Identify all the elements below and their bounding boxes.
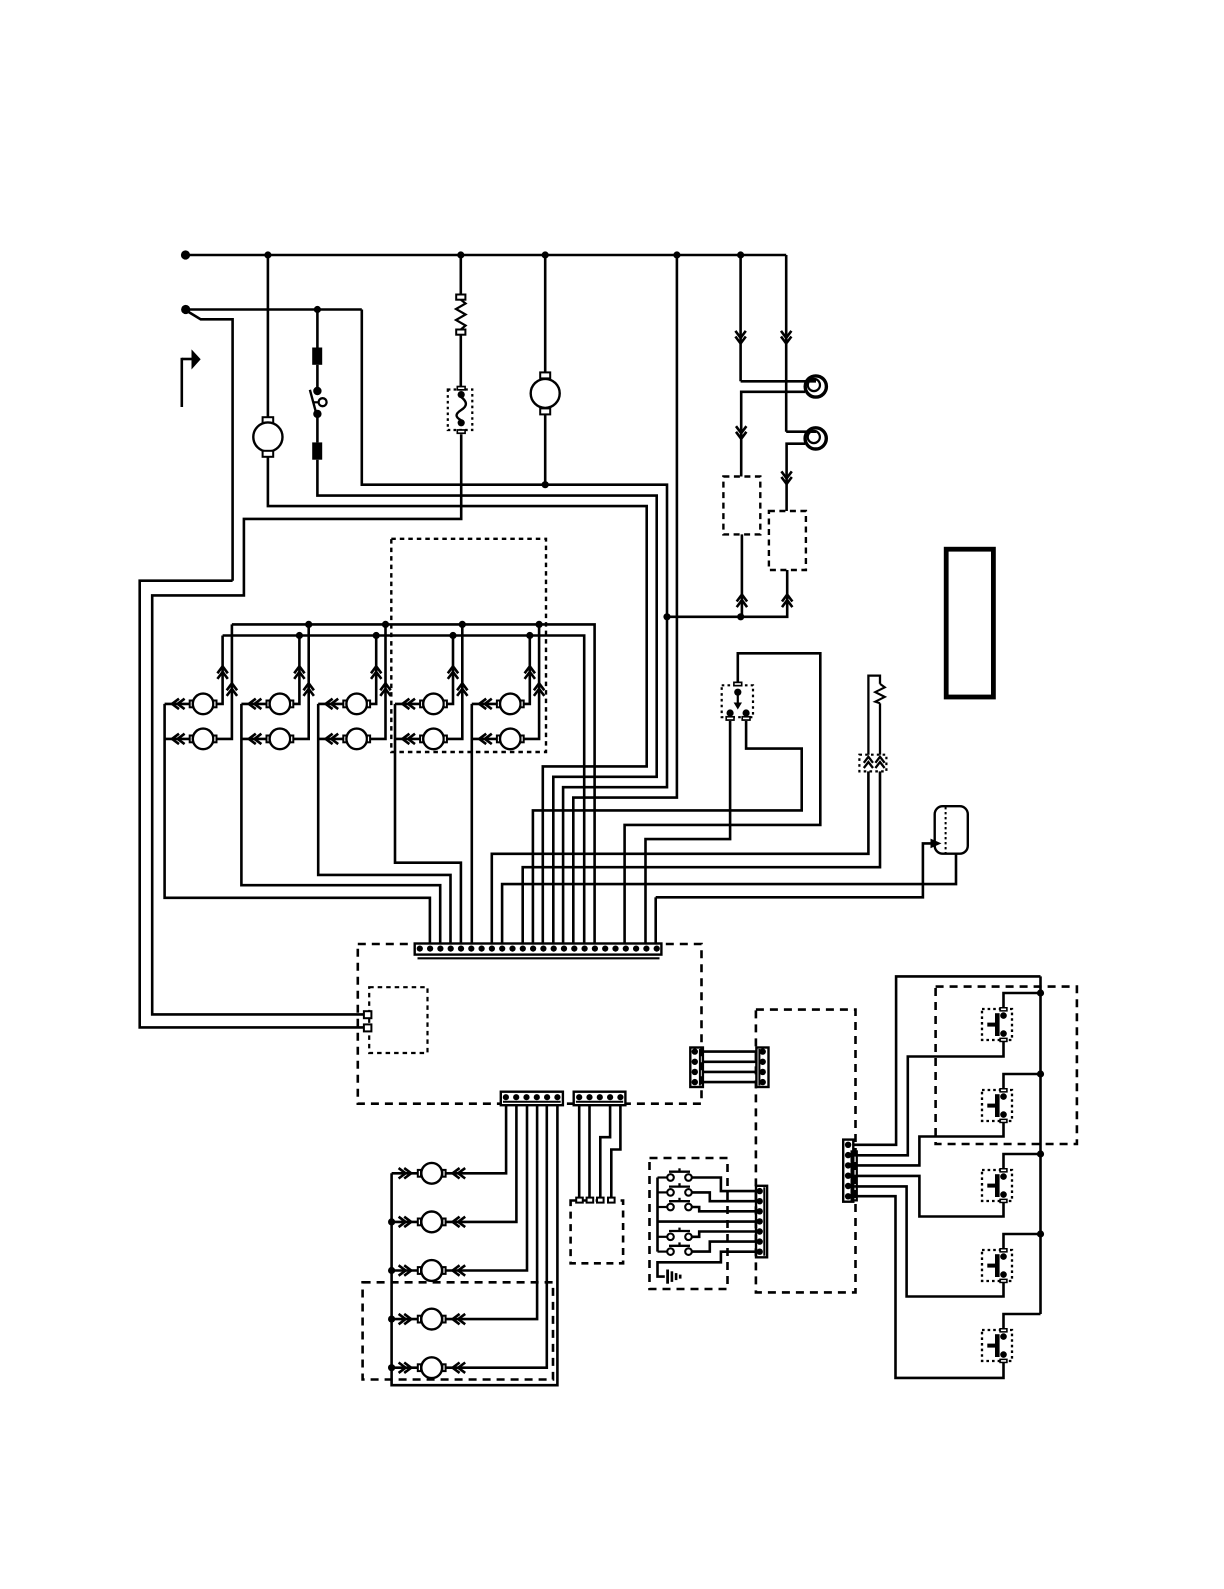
pin P3-2 <box>586 1094 592 1100</box>
wire resistor-fuse <box>459 335 462 387</box>
node valve bus junction 5 <box>388 1364 395 1371</box>
wire bus1 to burner 1B <box>217 624 232 739</box>
surface burner valve 5B <box>497 736 500 743</box>
pin J2-2 <box>760 1059 766 1065</box>
node valve bus junction 3 <box>388 1267 395 1274</box>
wire SI4 return <box>853 1186 1003 1296</box>
node L1 left end <box>181 250 190 259</box>
node igniter bus junction 1 <box>1037 989 1044 996</box>
connector chevrons burner 3A left <box>326 699 339 709</box>
wire J1-J2 pin2 <box>703 1060 757 1063</box>
wire valve 5 to strip <box>446 1105 547 1368</box>
wire L2 branch diagonal <box>187 311 233 581</box>
connector chevrons broil return <box>782 595 792 608</box>
wire burner 3B left lead <box>318 738 343 741</box>
connector chevrons burner 5A <box>525 666 535 679</box>
wire igniter bus to SI1 <box>1004 993 1041 1007</box>
connector chevrons valve 1 in <box>399 1168 412 1178</box>
connector chevrons valve 5 in <box>399 1363 412 1373</box>
wire bus2 to burner 3A <box>370 636 376 704</box>
pin J4-5 <box>845 1183 851 1189</box>
wire broil box to bus <box>667 570 787 617</box>
wire igniter bus to SI3 <box>1004 1154 1041 1168</box>
wire bus1 to burner 2B <box>293 624 308 739</box>
wire valve 5 left <box>392 1366 419 1369</box>
node valve bus junction 4 <box>388 1316 395 1323</box>
spark igniter SI3 <box>982 1170 1012 1201</box>
wire SI1 return <box>853 1042 1003 1155</box>
pin P3-1 <box>576 1094 582 1100</box>
pin J2-1 <box>760 1048 766 1054</box>
wire L2 left drop <box>140 581 365 1028</box>
pin J3-4 <box>757 1218 763 1224</box>
connector chevrons valve 1 out <box>453 1168 466 1178</box>
chassis ground <box>666 1270 669 1284</box>
pin P1-19 <box>602 946 608 952</box>
wire bus1 to burner 3B <box>370 624 385 739</box>
wire spark module out L <box>646 721 731 944</box>
node junction L1-igniter1 <box>737 251 744 258</box>
door latch assembly <box>935 806 968 854</box>
wire burner 3A left lead <box>318 703 343 706</box>
resistor R1 <box>456 295 465 300</box>
wire burner col3 return <box>318 704 450 944</box>
pin P2-5 <box>544 1094 550 1100</box>
wire resistor feed <box>459 255 462 295</box>
pin P1-21 <box>623 946 629 952</box>
wire switch row 1 out <box>692 1178 756 1192</box>
pin J1-1 <box>692 1048 698 1054</box>
pin P1-18 <box>592 946 598 952</box>
pin P1-23 <box>643 946 649 952</box>
wire spark module power <box>625 653 821 943</box>
pin P3-5 <box>617 1094 623 1100</box>
pin P1-9 <box>499 946 505 952</box>
pin J3-7 <box>757 1249 763 1255</box>
surface burner valve 3A <box>343 701 346 708</box>
wire bus2 to burner 5A <box>524 636 530 704</box>
pin P1-17 <box>582 946 588 952</box>
pin P1-22 <box>633 946 639 952</box>
connector chevrons sensor R <box>875 757 884 768</box>
fuse F1 <box>312 348 322 365</box>
surface burner valve 1A <box>190 701 193 708</box>
connector chevrons sensor L <box>864 757 873 768</box>
pin J3-3 <box>757 1208 763 1214</box>
harness connector J2 <box>756 1048 768 1088</box>
thermal fuse TF1 <box>448 390 473 431</box>
node bus2 junction col2 <box>296 632 303 639</box>
surface burner valve 5A <box>497 701 500 708</box>
node motor-L2wire junction <box>542 481 549 488</box>
spark igniter SI2 <box>982 1090 1012 1121</box>
wire igniter1 outer lead <box>741 392 805 477</box>
pin J1-4 <box>692 1079 698 1085</box>
pin P1-15 <box>561 946 567 952</box>
pin P2-6 <box>554 1094 560 1100</box>
connector chevrons valve 4 out <box>453 1314 466 1324</box>
wire switch row 6 out <box>692 1242 756 1252</box>
terminal strip P1 <box>415 944 662 955</box>
connector chevrons valve 3 out <box>453 1265 466 1275</box>
surface burner valve 1B <box>190 736 193 743</box>
terminal REG-3 <box>597 1198 604 1203</box>
pin P3-3 <box>597 1094 603 1100</box>
connector chevrons igniter1 feed <box>735 331 745 344</box>
connector chevrons burner 3B <box>380 683 390 696</box>
wire fuse-switch <box>316 365 319 391</box>
sensor connector box <box>859 755 886 772</box>
switch harness connector J3 <box>756 1186 767 1258</box>
wire clock feed <box>267 255 270 419</box>
wire J1-J2 pin1 <box>703 1050 757 1053</box>
spark igniter SI5 <box>982 1330 1012 1361</box>
clock motor M1 <box>263 417 274 423</box>
connector chevrons burner 1B <box>227 683 237 696</box>
terminal P7-2 <box>364 1024 372 1031</box>
wire P3-5 to regulator <box>611 1105 620 1197</box>
terminal REG-1 <box>576 1198 583 1203</box>
surface burner valve 4B <box>420 736 423 743</box>
wire burner 4B left lead <box>395 738 420 741</box>
pin P1-11 <box>520 946 526 952</box>
wire P3-1 to regulator <box>578 1105 581 1197</box>
pin J4-6 <box>845 1193 851 1199</box>
surface burner valve 3B <box>343 736 346 743</box>
wire bus1 to burner 4B <box>447 624 462 739</box>
node junction L1-neutral drop <box>673 251 680 258</box>
pin J4-2 <box>845 1152 851 1158</box>
wire bus2 to burner 4A <box>447 636 453 704</box>
wire SI3 return <box>853 1176 1003 1217</box>
griddle dashed box <box>391 539 546 752</box>
igniter connector J4 <box>843 1140 853 1202</box>
pin J4-4 <box>845 1173 851 1179</box>
node igniter bus junction 3 <box>1037 1150 1044 1157</box>
node junction L1-motor <box>542 251 549 258</box>
bake spark box B1 <box>723 477 760 535</box>
wire igniter bus <box>1039 976 1042 1314</box>
switch SW5 <box>658 1236 668 1238</box>
switch SW1 <box>658 1176 668 1178</box>
regulator box <box>571 1201 624 1264</box>
pin P1-20 <box>612 946 618 952</box>
lower gas valve V5 <box>418 1364 421 1371</box>
connector chevrons bake return <box>737 595 747 608</box>
wire burner 1A left lead <box>165 703 190 706</box>
pin P1-12 <box>530 946 536 952</box>
motor M2 <box>540 372 550 378</box>
wire switch row 5 out <box>692 1232 756 1237</box>
node junction L1-clock <box>264 251 271 258</box>
wire burner 5B left lead <box>472 738 497 741</box>
connector chevrons burner 1A left <box>172 699 185 709</box>
node bus1 junction col5 <box>536 621 543 628</box>
wire igniter bus to SI4 <box>1004 1234 1041 1248</box>
node bus1 junction col3 <box>382 621 389 628</box>
connector chevrons burner 1B left <box>172 734 185 744</box>
board transformer box <box>369 987 427 1053</box>
wire L1 drop to board <box>573 255 677 944</box>
pin P1-7 <box>479 946 485 952</box>
node bus2 junction col4 <box>449 632 456 639</box>
pin P2-3 <box>523 1094 529 1100</box>
switch SW6 <box>658 1250 668 1252</box>
control board box <box>358 944 702 1104</box>
node bus1 junction col4 <box>459 621 466 628</box>
wire igniter2 inner lead <box>786 430 816 433</box>
oven sensor RTD <box>868 676 880 755</box>
connector chevrons burner 1A <box>217 666 227 679</box>
wire switch row 3 out <box>692 1207 756 1211</box>
wire J4-1 to igniter bus <box>853 976 1040 1144</box>
wire burner col4 return <box>395 704 461 944</box>
connector chevrons burner 2B left <box>249 734 262 744</box>
wire oven igniter 1 feed <box>739 255 742 381</box>
wire burner col1 return <box>165 704 430 944</box>
pin J2-3 <box>760 1069 766 1075</box>
connector chevrons valve 2 out <box>453 1217 466 1227</box>
pin P1-2 <box>427 946 433 952</box>
pin J1-2 <box>692 1059 698 1065</box>
wire switch ground run <box>658 1252 757 1277</box>
switch SW2 <box>658 1191 668 1193</box>
surface burner valve 2B <box>267 736 270 743</box>
pin J3-6 <box>757 1238 763 1244</box>
wire latch drive to strip <box>654 897 657 943</box>
wire bus2 to burner 1A <box>217 636 223 704</box>
oven igniter E2 <box>805 428 826 449</box>
spark igniter SI4 <box>982 1250 1012 1281</box>
wire valve 2 to strip <box>446 1105 517 1222</box>
terminal strip P2 <box>501 1092 563 1106</box>
pin P3-4 <box>607 1094 613 1100</box>
ground frame arrow <box>182 358 192 361</box>
pin P1-14 <box>551 946 557 952</box>
wire bus1 to burner 5B <box>524 624 539 739</box>
pin J2-4 <box>760 1079 766 1085</box>
switch SW3 <box>658 1206 668 1208</box>
connector chevrons burner 5B left <box>479 734 492 744</box>
wire SI2 return <box>853 1123 1003 1165</box>
wire surface bus 1 <box>232 624 595 943</box>
wire valve 1 to strip <box>446 1105 507 1173</box>
surface burner valve 4A <box>420 701 423 708</box>
wire sensor R to strip <box>523 771 880 943</box>
wire motor to L2 node <box>544 414 547 484</box>
connector chevrons valve 5 out <box>453 1363 466 1373</box>
wire switch feed <box>316 310 319 348</box>
spark igniter SI1 <box>982 1009 1012 1040</box>
pin J1-3 <box>692 1069 698 1075</box>
connector chevrons burner 2A left <box>249 699 262 709</box>
wire motor feed <box>544 255 547 374</box>
pin J3-1 <box>757 1188 763 1194</box>
connector chevrons burner 3B left <box>326 734 339 744</box>
wire burner 2B left lead <box>241 738 266 741</box>
wire switch bank bus <box>656 1178 659 1252</box>
pin P2-1 <box>503 1094 509 1100</box>
wire oven igniter 2 feed <box>785 255 788 432</box>
terminal REG-2 <box>587 1198 594 1203</box>
oven igniter group box <box>936 987 1077 1144</box>
connector chevrons burner 5A left <box>479 699 492 709</box>
wire switch-fuse2 <box>316 414 319 443</box>
burner switch bank box <box>650 1158 728 1289</box>
wire J1-J2 pin4 <box>703 1081 757 1084</box>
wire surface bus 2 <box>223 636 585 944</box>
terminal REG-4 <box>608 1198 615 1203</box>
connector chevrons burner 4A left <box>402 699 415 709</box>
wiring harness box <box>756 1010 856 1293</box>
broil spark box B2 <box>769 511 806 570</box>
node igniter bus junction 2 <box>1037 1070 1044 1077</box>
wire J1-J2 pin3 <box>703 1071 757 1074</box>
wire spark module out R <box>533 721 802 944</box>
lower gas valve V2 <box>418 1219 421 1226</box>
node bus2 junction col3 <box>373 632 380 639</box>
wire power line L2 <box>186 308 362 311</box>
pin P2-2 <box>513 1094 519 1100</box>
connector chevrons burner 2A <box>294 666 304 679</box>
fuse F2 <box>312 442 322 459</box>
node bake return junction <box>737 613 744 620</box>
legend block <box>946 549 993 697</box>
switch S1 <box>313 387 321 395</box>
surface burner valve 2A <box>267 701 270 708</box>
oven igniter E1 <box>805 376 826 397</box>
wire SI5 return <box>853 1196 1003 1378</box>
spark module SM1 <box>722 685 753 717</box>
terminal strip P3 <box>574 1092 626 1106</box>
wire sensor L to strip <box>492 771 869 943</box>
connector chevrons burner 2B <box>304 683 314 696</box>
pin J4-3 <box>845 1162 851 1168</box>
pin P2-4 <box>534 1094 540 1100</box>
pin P1-6 <box>468 946 474 952</box>
wire switch row 2 out <box>692 1192 756 1201</box>
connector chevrons burner 4A <box>448 666 458 679</box>
wire igniter2 outer lead <box>787 444 805 511</box>
wire valve 3 left <box>392 1269 419 1272</box>
connector chevrons igniter2 return <box>781 471 791 484</box>
wire igniter1 inner lead <box>741 380 816 383</box>
wire P3-2 to regulator <box>588 1105 591 1197</box>
pin P1-16 <box>571 946 577 952</box>
wire L2 to board <box>362 310 667 944</box>
switch row 4 wire <box>658 1220 757 1223</box>
terminal P7-1 <box>364 1011 372 1018</box>
wire valve 3 to strip <box>446 1105 527 1270</box>
pin P1-1 <box>417 946 423 952</box>
wire valve 4 left <box>392 1318 419 1321</box>
node bus2 junction col5 <box>526 632 533 639</box>
connector chevrons burner 4B <box>457 683 467 696</box>
wire igniter bus to SI2 <box>1004 1074 1041 1088</box>
wire burner 5A left lead <box>472 703 497 706</box>
connector chevrons valve 3 in <box>399 1265 412 1275</box>
wire P3-4 to regulator <box>600 1105 610 1197</box>
connector chevrons burner 3A <box>371 666 381 679</box>
wire clock to board <box>268 457 647 944</box>
node valve bus junction 2 <box>388 1218 395 1225</box>
wire valve 2 left <box>392 1221 419 1224</box>
pin P1-3 <box>437 946 443 952</box>
node L2-igniter return tap <box>663 613 670 620</box>
connector chevrons igniter2 feed <box>781 331 791 344</box>
connector chevrons igniter1 return <box>736 426 746 439</box>
lower gas valve V4 <box>418 1316 421 1323</box>
wire burner col5 return <box>470 704 473 944</box>
pin P1-8 <box>489 946 495 952</box>
wire burner col2 return <box>241 704 440 944</box>
wire burner 4A left lead <box>395 703 420 706</box>
wire bake box to bus <box>741 534 744 616</box>
board connector J1 <box>690 1048 703 1088</box>
wire latch return <box>502 854 956 944</box>
wire lower valve bus <box>392 1105 558 1385</box>
node bus1 junction col2 <box>305 621 312 628</box>
wire bus2 to burner 2A <box>293 636 299 704</box>
wire igniter bus to SI5 <box>1004 1314 1041 1328</box>
wire burner 2A left lead <box>241 703 266 706</box>
wire burner 1B left lead <box>165 738 190 741</box>
connector chevrons valve 4 in <box>399 1314 412 1324</box>
pin J3-2 <box>757 1198 763 1204</box>
wire fuse to P7 terminal <box>152 434 461 1014</box>
pin P1-4 <box>448 946 454 952</box>
pin P1-13 <box>540 946 546 952</box>
pin J4-1 <box>845 1142 851 1148</box>
wire switch to board <box>317 460 656 944</box>
connector chevrons valve 2 in <box>399 1217 412 1227</box>
pin J3-5 <box>757 1228 763 1234</box>
lower gas valve V1 <box>418 1170 421 1177</box>
wire valve 1 left <box>392 1172 419 1175</box>
pin P1-10 <box>509 946 515 952</box>
wire latch drive <box>656 843 932 897</box>
node igniter bus junction 4 <box>1037 1230 1044 1237</box>
lower gas valve V3 <box>418 1267 421 1274</box>
pin P1-5 <box>458 946 464 952</box>
node junction L2-switch <box>314 306 321 313</box>
wire valve 4 to strip <box>446 1105 537 1319</box>
connector chevrons burner 4B left <box>402 734 415 744</box>
connector chevrons burner 5B <box>534 683 544 696</box>
node junction L1-resistor <box>457 251 464 258</box>
wire power line L1 <box>186 254 787 257</box>
lower valves dashed box <box>363 1282 553 1379</box>
pin P1-24 <box>654 946 660 952</box>
node L2 left end <box>181 305 190 314</box>
